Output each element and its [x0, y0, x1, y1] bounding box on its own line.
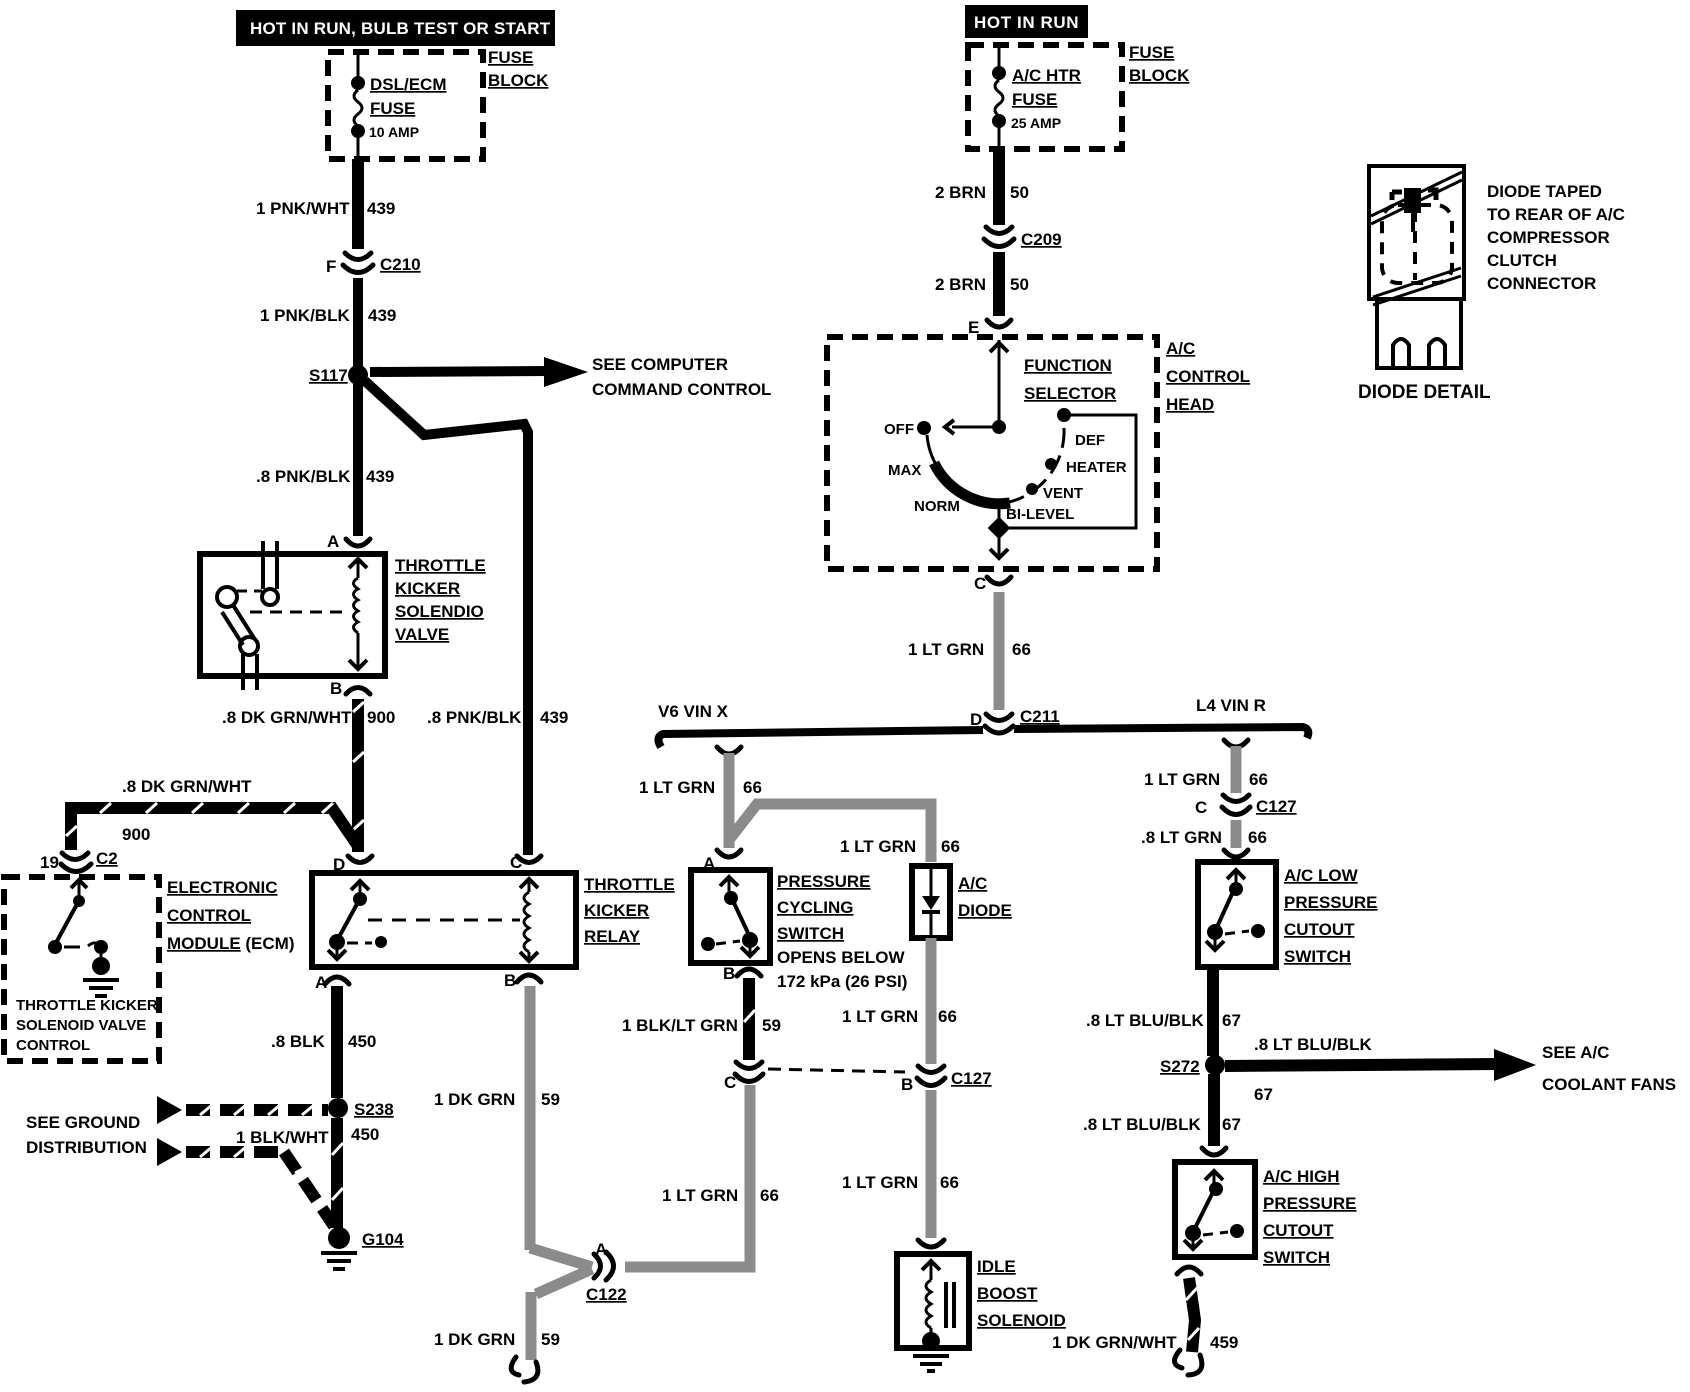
svg-text:.8 LT BLU/BLK: .8 LT BLU/BLK [1083, 1115, 1201, 1134]
idle boost solenoid box [897, 1254, 1066, 1348]
svg-text:B: B [330, 679, 342, 698]
svg-text:A/C HTR: A/C HTR [1012, 66, 1081, 85]
svg-text:1 LT GRN: 1 LT GRN [840, 837, 916, 856]
svg-text:66: 66 [1012, 640, 1031, 659]
svg-text:FUSE: FUSE [488, 48, 533, 67]
throttle kicker solenoid valve control (ECM driver) [16, 880, 158, 1054]
svg-text:THROTTLE: THROTTLE [584, 875, 675, 894]
wire .8 LT GRN 66 [1141, 820, 1267, 848]
svg-text:DIODE TAPED: DIODE TAPED [1487, 182, 1602, 201]
pin connector of A/C high pressure switch [1202, 1148, 1226, 1155]
svg-text:10 AMP: 10 AMP [369, 124, 419, 140]
wire 1 DK GRN/WHT 459 [1174, 1278, 1201, 1375]
svg-text:G104: G104 [362, 1230, 404, 1249]
svg-text:66: 66 [941, 837, 960, 856]
wire arrow SEE COMPUTER COMMAND CONTROL [370, 355, 771, 399]
svg-text:66: 66 [743, 778, 762, 797]
svg-text:COMMAND CONTROL: COMMAND CONTROL [592, 380, 771, 399]
svg-text:66: 66 [940, 1173, 959, 1192]
svg-text:VENT: VENT [1043, 485, 1083, 502]
pressure cycling switch contacts [701, 877, 759, 956]
wire .8 LT BLU/BLK 67 [1086, 967, 1241, 1056]
node S238 [328, 1098, 394, 1119]
fuse DSL/ECM 10 AMP [351, 52, 447, 159]
svg-text:50: 50 [1010, 275, 1029, 294]
svg-text:1 BLK/WHT: 1 BLK/WHT [236, 1128, 329, 1147]
function selector [884, 340, 1116, 438]
diode detail captions [1358, 182, 1625, 403]
high pressure switch contacts [1184, 1171, 1244, 1249]
connector C (to C127) [724, 1062, 763, 1092]
svg-text:A/C HIGH: A/C HIGH [1263, 1167, 1340, 1186]
relay pin D connector [333, 855, 372, 874]
svg-text:CLUTCH: CLUTCH [1487, 251, 1557, 270]
svg-text:1 LT GRN: 1 LT GRN [1144, 770, 1220, 789]
svg-text:THROTTLE KICKER: THROTTLE KICKER [16, 997, 158, 1014]
svg-text:PRESSURE: PRESSURE [1263, 1194, 1357, 1213]
svg-text:439: 439 [368, 306, 396, 325]
ECM dashed box [4, 877, 295, 1061]
svg-text:66: 66 [760, 1186, 779, 1205]
svg-text:.8 DK GRN/WHT: .8 DK GRN/WHT [222, 708, 352, 727]
svg-text:SEE A/C: SEE A/C [1542, 1043, 1609, 1062]
svg-text:439: 439 [540, 708, 568, 727]
svg-text:F: F [326, 257, 336, 276]
svg-text:THROTTLE: THROTTLE [395, 556, 486, 575]
svg-text:COMPRESSOR: COMPRESSOR [1487, 228, 1610, 247]
wire arrow SEE A/C COOLANT FANS [1225, 1035, 1676, 1104]
svg-text:1 LT GRN: 1 LT GRN [662, 1186, 738, 1205]
svg-text:VALVE: VALVE [395, 625, 449, 644]
wire .8 PNK/BLK 439 down from S117 [256, 384, 394, 536]
svg-text:FUSE: FUSE [1012, 90, 1057, 109]
svg-text:2 BRN: 2 BRN [935, 275, 986, 294]
svg-text:FUSE: FUSE [1129, 43, 1174, 62]
svg-text:900: 900 [367, 708, 395, 727]
svg-text:2 BRN: 2 BRN [935, 183, 986, 202]
bus wire V6 / L4 [658, 696, 1308, 747]
svg-text:BI-LEVEL: BI-LEVEL [1006, 506, 1074, 523]
pin B connector of solenoid valve [330, 679, 370, 698]
connector C2 pin 19 [40, 849, 118, 872]
svg-text:459: 459 [1210, 1333, 1238, 1352]
idle boost solenoid ground [913, 1332, 949, 1371]
svg-text:C211: C211 [1020, 707, 1060, 726]
connector C C127 (right) [1195, 795, 1297, 817]
svg-text:450: 450 [351, 1125, 379, 1144]
svg-text:SWITCH: SWITCH [1263, 1248, 1330, 1267]
svg-text:172 kPa (26 PSI): 172 kPa (26 PSI) [777, 972, 907, 991]
svg-text:C2: C2 [96, 849, 118, 868]
dashed link C to B C127 [768, 1069, 905, 1072]
wire 2 BRN 50 upper [935, 149, 1029, 225]
relay coil (C to B) [520, 879, 538, 961]
svg-text:.8 LT BLU/BLK: .8 LT BLU/BLK [1254, 1035, 1372, 1054]
wire .8 DK GRN/WHT 900 horizontal to C2 [66, 777, 358, 850]
svg-text:DEF: DEF [1075, 432, 1105, 449]
svg-text:HEATER: HEATER [1066, 459, 1127, 476]
svg-text:HOT IN RUN: HOT IN RUN [974, 13, 1079, 32]
svg-text:PRESSURE: PRESSURE [1284, 893, 1378, 912]
svg-text:.8 PNK/BLK: .8 PNK/BLK [427, 708, 522, 727]
svg-text:BOOST: BOOST [977, 1284, 1038, 1303]
svg-text:.8 BLK: .8 BLK [271, 1032, 326, 1051]
svg-text:V6 VIN X: V6 VIN X [658, 702, 729, 721]
pin A connector of pressure cycling switch [703, 850, 741, 873]
node S272 [1160, 1055, 1225, 1076]
dashed arrow SEE GROUND DISTRIBUTION (lower) [157, 1138, 334, 1226]
svg-text:CONTROL: CONTROL [167, 906, 251, 925]
wire 1 DK GRN 59 from relay B [434, 986, 560, 1250]
svg-text:450: 450 [348, 1032, 376, 1051]
gray branch to A/C diode [729, 804, 960, 862]
connector C209 [984, 227, 1062, 249]
svg-text:HEAD: HEAD [1166, 395, 1214, 414]
svg-text:B: B [901, 1075, 913, 1094]
connector C210 [326, 253, 421, 276]
connector D C211 on bus [970, 707, 1060, 733]
header HOT IN RUN [965, 5, 1088, 38]
svg-text:439: 439 [366, 467, 394, 486]
svg-text:DIODE: DIODE [958, 901, 1012, 920]
svg-text:FUNCTION: FUNCTION [1024, 356, 1112, 375]
svg-text:NORM: NORM [914, 498, 960, 515]
idle boost solenoid coil [922, 1261, 954, 1336]
svg-text:CUTOUT: CUTOUT [1284, 920, 1355, 939]
wire 1 LT GRN 66 below C [662, 1085, 779, 1205]
svg-text:CUTOUT: CUTOUT [1263, 1221, 1334, 1240]
wire .8 PNK/BLK 439 branch to relay C [365, 381, 568, 855]
wire 1 BLK/LT GRN 59 [622, 978, 781, 1060]
pressure cycling switch box [691, 870, 907, 991]
wire junction into C122 [530, 1248, 592, 1360]
svg-text:59: 59 [541, 1330, 560, 1349]
pin C connector of A/C control head [974, 574, 1011, 593]
svg-text:19: 19 [40, 853, 59, 872]
svg-text:DISTRIBUTION: DISTRIBUTION [26, 1138, 147, 1157]
svg-text:1 BLK/LT GRN: 1 BLK/LT GRN [622, 1016, 738, 1035]
svg-text:1 LT GRN: 1 LT GRN [639, 778, 715, 797]
pin connector below high pressure switch [1177, 1267, 1201, 1274]
svg-text:S238: S238 [354, 1100, 394, 1119]
svg-text:FUSE: FUSE [370, 99, 415, 118]
svg-text:C122: C122 [586, 1285, 627, 1304]
svg-text:C: C [974, 574, 986, 593]
svg-text:C127: C127 [951, 1069, 992, 1088]
relay switch (D to A) [328, 881, 520, 959]
svg-text:BLOCK: BLOCK [488, 71, 549, 90]
svg-text:66: 66 [938, 1007, 957, 1026]
ground G104 [321, 1227, 404, 1269]
solenoid valve actuator mechanism [217, 541, 350, 690]
svg-text:CONNECTOR: CONNECTOR [1487, 274, 1596, 293]
svg-text:SOLENOID VALVE: SOLENOID VALVE [16, 1017, 146, 1034]
relay pin A connector [315, 973, 349, 992]
svg-text:BLOCK: BLOCK [1129, 66, 1190, 85]
svg-text:1 LT GRN: 1 LT GRN [908, 640, 984, 659]
fuse A/C HTR 25 AMP [992, 45, 1081, 149]
svg-text:RELAY: RELAY [584, 927, 641, 946]
throttle kicker solenoid valve box [200, 554, 486, 676]
svg-text:SWITCH: SWITCH [1284, 947, 1351, 966]
selector contact arc [888, 408, 1127, 523]
svg-text:67: 67 [1254, 1085, 1273, 1104]
wire 1 BLK/WHT 450 [236, 1118, 379, 1228]
solenoid coil inside valve box [349, 559, 367, 669]
svg-text:HOT IN RUN, BULB TEST OR START: HOT IN RUN, BULB TEST OR START [250, 19, 551, 38]
pin E connector of A/C control head [968, 318, 1011, 337]
svg-text:CYCLING: CYCLING [777, 898, 854, 917]
svg-text:SELECTOR: SELECTOR [1024, 384, 1116, 403]
svg-text:50: 50 [1010, 183, 1029, 202]
pin connector of A/C low pressure switch [1224, 850, 1248, 857]
svg-text:A/C LOW: A/C LOW [1284, 866, 1359, 885]
wire .8 LT BLU/BLK 67 to high pressure switch [1083, 1074, 1241, 1146]
svg-text:B: B [723, 964, 735, 983]
svg-text:439: 439 [367, 199, 395, 218]
fuse block right (dashed box) [968, 43, 1190, 149]
wire 2 BRN 50 lower [935, 252, 1029, 316]
svg-text:900: 900 [122, 825, 150, 844]
A/C high pressure cutout switch box [1175, 1162, 1357, 1267]
header HOT IN RUN, BULB TEST OR START [236, 10, 555, 46]
svg-text:1 DK GRN/WHT: 1 DK GRN/WHT [1052, 1333, 1177, 1352]
svg-text:KICKER: KICKER [395, 579, 460, 598]
svg-text:1 DK GRN: 1 DK GRN [434, 1090, 515, 1109]
svg-text:A/C: A/C [1166, 339, 1195, 358]
pin A connector of solenoid valve [327, 532, 370, 551]
svg-text:KICKER: KICKER [584, 901, 649, 920]
svg-text:66: 66 [1248, 828, 1267, 847]
svg-text:1 LT GRN: 1 LT GRN [842, 1173, 918, 1192]
diode detail lower shell [1377, 299, 1461, 368]
svg-text:CONTROL: CONTROL [16, 1037, 90, 1054]
svg-text:B: B [504, 971, 516, 990]
A/C low pressure cutout switch box [1198, 862, 1378, 967]
svg-text:DSL/ECM: DSL/ECM [370, 75, 447, 94]
dashed arrow SEE GROUND DISTRIBUTION (upper) [26, 1096, 328, 1157]
A/C control head dashed box [827, 337, 1250, 569]
connector A C122 [586, 1240, 627, 1304]
throttle kicker relay box [312, 873, 675, 967]
svg-text:SWITCH: SWITCH [777, 924, 844, 943]
svg-text:SEE COMPUTER: SEE COMPUTER [592, 355, 728, 374]
svg-text:SOLENOID: SOLENOID [977, 1311, 1066, 1330]
left branch connector under bus [639, 747, 762, 848]
svg-text:A: A [327, 532, 339, 551]
svg-text:59: 59 [762, 1016, 781, 1035]
svg-text:59: 59 [541, 1090, 560, 1109]
svg-text:1 PNK/WHT: 1 PNK/WHT [256, 199, 350, 218]
wire 1 LT GRN 66 to C211 [908, 592, 1031, 710]
fuse block left (dashed box) [328, 48, 549, 159]
svg-text:DIODE DETAIL: DIODE DETAIL [1358, 382, 1491, 403]
low pressure switch contacts [1206, 870, 1265, 950]
svg-text:C210: C210 [380, 255, 421, 274]
wire 1 LT GRN 66 to idle boost solenoid [842, 1090, 959, 1238]
svg-text:C127: C127 [1256, 797, 1297, 816]
svg-text:.8 DK GRN/WHT: .8 DK GRN/WHT [122, 777, 252, 796]
wire 1 LT GRN 66 below diode [842, 938, 957, 1064]
svg-text:.8 LT BLU/BLK: .8 LT BLU/BLK [1086, 1011, 1204, 1030]
svg-text:CONTROL: CONTROL [1166, 367, 1250, 386]
svg-text:A/C: A/C [958, 874, 987, 893]
svg-text:MODULE (ECM): MODULE (ECM) [167, 934, 295, 953]
svg-text:67: 67 [1222, 1011, 1241, 1030]
svg-text:S117: S117 [309, 366, 348, 385]
node S117 [309, 365, 368, 385]
svg-text:PRESSURE: PRESSURE [777, 872, 871, 891]
svg-text:IDLE: IDLE [977, 1257, 1016, 1276]
svg-text:.8 PNK/BLK: .8 PNK/BLK [256, 467, 351, 486]
wire .8 BLK 450 [271, 986, 376, 1098]
svg-text:1 PNK/BLK: 1 PNK/BLK [260, 306, 350, 325]
pin B connector of pressure cycling switch [723, 964, 761, 983]
wire 1 DK GRN 59 to bottom edge [434, 1090, 750, 1382]
wire 1 DK GRN/WHT 459 label [1052, 1333, 1238, 1352]
idle boost solenoid connector [918, 1240, 944, 1247]
svg-text:67: 67 [1222, 1115, 1241, 1134]
svg-text:1 DK GRN: 1 DK GRN [434, 1330, 515, 1349]
svg-text:SEE GROUND: SEE GROUND [26, 1113, 140, 1132]
wire 1 PNK/WHT 439 [256, 159, 395, 249]
A/C diode box [912, 866, 1012, 938]
relay pin C connector [510, 853, 541, 872]
svg-text:OPENS BELOW: OPENS BELOW [777, 948, 905, 967]
wire 1 PNK/BLK 439 [260, 278, 396, 367]
svg-text:OFF: OFF [884, 421, 914, 438]
relay pin B connector [504, 971, 541, 990]
svg-text:S272: S272 [1160, 1057, 1200, 1076]
diode symbol [922, 869, 940, 935]
svg-text:COOLANT FANS: COOLANT FANS [1542, 1075, 1676, 1094]
svg-text:MAX: MAX [888, 462, 921, 479]
diode detail connector body [1369, 166, 1464, 305]
svg-text:1 LT GRN: 1 LT GRN [842, 1007, 918, 1026]
right branch connector under bus [1144, 740, 1268, 793]
svg-text:C209: C209 [1021, 230, 1062, 249]
wire .8 DK GRN/WHT 900 from B down to relay D [222, 699, 395, 852]
svg-text:C: C [1195, 798, 1207, 817]
svg-text:ELECTRONIC: ELECTRONIC [167, 878, 278, 897]
connector B C127 [901, 1066, 992, 1094]
svg-text:SOLENDIO: SOLENDIO [395, 602, 484, 621]
svg-text:TO REAR OF A/C: TO REAR OF A/C [1487, 205, 1625, 224]
svg-text:66: 66 [1249, 770, 1268, 789]
svg-text:L4 VIN R: L4 VIN R [1196, 696, 1266, 715]
wire DEF to output junction [988, 415, 1136, 558]
svg-text:.8 LT GRN: .8 LT GRN [1141, 828, 1222, 847]
svg-text:25 AMP: 25 AMP [1011, 115, 1061, 131]
